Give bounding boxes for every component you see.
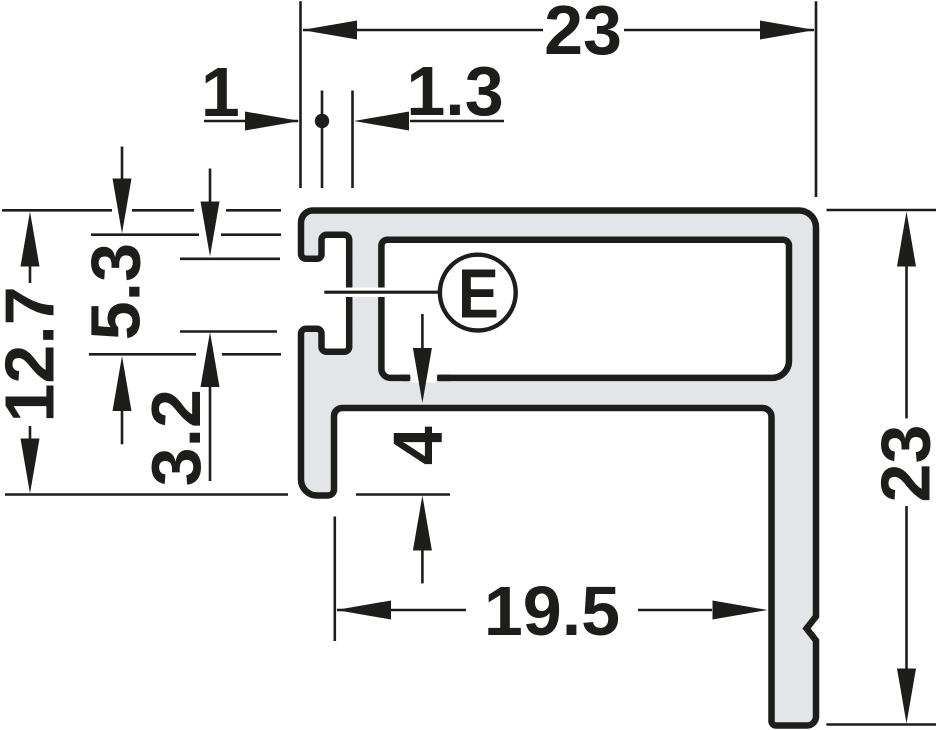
svg-text:23: 23 [544, 0, 622, 69]
dimension 5.3 top arrow [121, 147, 124, 186]
extension line at slot right wall [351, 91, 354, 189]
leader line halo [324, 287, 433, 297]
dimension 23 (right) arrows and line [897, 212, 916, 267]
dimension 23 (right) bottom reference line [826, 723, 936, 726]
svg-text:3.2: 3.2 [137, 389, 215, 486]
dimension 23 (top) extension line left [299, 1, 302, 188]
dimension 1 line and arrow [204, 120, 298, 123]
svg-text:1.3: 1.3 [406, 52, 503, 130]
dimension 23 (right) top reference line [827, 209, 937, 212]
dimension 12.7 arrows and line [21, 212, 40, 267]
dimension 23 (top) extension line right [815, 1, 818, 197]
reference line mouth top (3.2 top) [180, 257, 280, 260]
callout circle E [440, 255, 516, 331]
reference line profile foot bottom [5, 493, 288, 496]
svg-text:19.5: 19.5 [484, 572, 620, 650]
svg-text:12.7: 12.7 [0, 286, 69, 422]
svg-text:4: 4 [379, 426, 457, 465]
profile body (grey cross-section with C-groove) [301, 211, 816, 726]
inner hollow cavity of top bar [381, 240, 789, 378]
leader line to E [324, 291, 440, 294]
reference line mouth bottom [180, 330, 277, 333]
svg-text:E: E [458, 255, 499, 333]
dimension 4 bottom arrow [413, 496, 432, 551]
svg-text:1: 1 [201, 53, 240, 131]
dimension 19.5 extension line [333, 517, 336, 642]
reference dot [315, 114, 329, 128]
reference line top edge (12.7 top) [2, 209, 112, 212]
reference line slot top (5.3 top) [91, 233, 199, 236]
dimension 3.2 bottom arrow [201, 332, 220, 387]
extension line at slot left wall [321, 91, 324, 189]
svg-text:23: 23 [866, 425, 937, 503]
dimension 23 (top) dimension line [303, 29, 543, 32]
reference line slot bottom (5.3 bottom) [89, 353, 196, 356]
dimension 1.3 line and arrow [354, 112, 409, 131]
dimension 5.3 bottom arrow [113, 356, 132, 411]
dimension 4 top arrow with halo gap in cavity floor [410, 374, 437, 383]
dimension 3.2 top arrow [209, 169, 212, 209]
dimension 19.5 line and arrows [336, 601, 391, 620]
svg-text:5.3: 5.3 [77, 243, 155, 340]
